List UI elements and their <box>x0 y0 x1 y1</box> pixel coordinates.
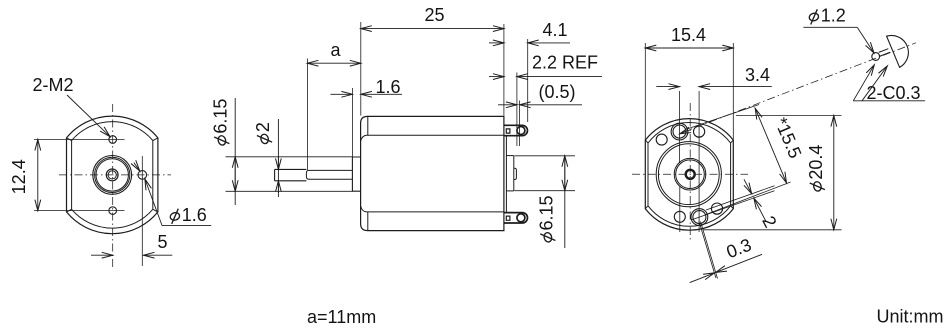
detail terminal half disc <box>887 36 909 68</box>
side view shaft top edge <box>275 168 307 170</box>
dim phi1.6 text <box>169 205 206 225</box>
dim 0.3 left segment <box>690 273 715 283</box>
svg-text:6.15: 6.15 <box>537 195 557 230</box>
svg-text:20.4: 20.4 <box>806 145 826 180</box>
dim 2-C0.3 leader 1 <box>853 65 874 101</box>
ext 0.3 left line <box>699 221 716 278</box>
dim 4.1 right arrow+tail <box>528 42 570 44</box>
dim phi1.2 leader <box>857 27 874 53</box>
left view M2 hole bottom <box>109 207 117 215</box>
side view shaft bottom edge <box>275 180 307 182</box>
rear terminal hole bottom inner <box>693 211 706 224</box>
terminal eyelet top <box>517 127 525 135</box>
dim 25 line <box>361 28 504 30</box>
svg-text:6.15: 6.15 <box>211 99 231 134</box>
dim 3.4 line right tail <box>699 86 772 88</box>
dim phi2 top arrow <box>277 157 279 169</box>
detail terminal thickness line 2 <box>880 52 890 56</box>
svg-text:2: 2 <box>253 122 273 132</box>
ext 2 upper line <box>706 186 775 210</box>
ext line body right face <box>503 24 505 116</box>
svg-text:5: 5 <box>158 232 168 252</box>
ext line 1.6 left <box>351 88 353 157</box>
rear hole top-left <box>656 134 667 145</box>
rear hole bottom-left <box>674 211 685 222</box>
ext line 4.1 right <box>527 39 529 122</box>
svg-text:25: 25 <box>425 5 445 25</box>
rear terminal hole top outer <box>671 123 688 140</box>
dim (0.5) right arrow+tail <box>520 104 582 106</box>
ext phi20.4 bottom <box>704 229 842 231</box>
detail chain line <box>681 43 917 133</box>
svg-text:1.2: 1.2 <box>821 6 846 26</box>
left view corner chamfer bottom-left <box>67 209 72 212</box>
left view top hole centerline / 12.4 ext <box>34 139 125 141</box>
ext phi20.4 top <box>736 115 842 117</box>
left view corner chamfer bottom-right <box>153 209 158 212</box>
dim 1.6 left arrow <box>330 93 352 95</box>
left view phi1.6 hole <box>138 171 147 180</box>
svg-text:2: 2 <box>758 213 780 231</box>
svg-text:1.6: 1.6 <box>376 77 401 97</box>
dim 15.4 line <box>645 47 733 49</box>
left view corner chamfer top-left <box>67 138 72 141</box>
ext *15.5 top <box>685 105 759 130</box>
ext 15.4 left <box>644 43 646 140</box>
ext 2 lower line <box>692 191 775 220</box>
detail terminal thickness line 1 <box>879 49 889 53</box>
side view flat corner edge top <box>367 116 369 135</box>
dim phi6.15R arrows <box>564 156 566 191</box>
ext line 0.5 right <box>519 101 521 147</box>
ext line a left <box>306 59 308 171</box>
rear hole top-right <box>694 126 705 137</box>
side view end cap rim <box>505 136 507 212</box>
side view flat edge line top <box>361 135 504 141</box>
rear line through right holes / 3.4 ext <box>698 91 700 232</box>
dim phi1.6 leader <box>145 179 162 226</box>
left view vertical centerline <box>112 104 114 268</box>
ext line body left face <box>360 22 362 116</box>
svg-text:2.2 REF: 2.2 REF <box>532 53 598 73</box>
left view shaft chamfer circle <box>108 171 116 179</box>
dim 0.3 right segment <box>716 254 762 272</box>
rear hole bottom-right <box>711 203 722 214</box>
left view bearing boss circle mid <box>95 157 130 192</box>
rear view chamfer top-right <box>731 140 734 143</box>
terminal tab top <box>504 125 527 135</box>
dim phi6.15L arrows <box>234 157 236 192</box>
side view end cap pip <box>514 168 517 179</box>
dim phi1.2 shelf <box>803 26 857 28</box>
dim phi20.4 text <box>806 145 826 192</box>
side view shaft flat section <box>306 170 352 179</box>
rear line through top terminal / 3.4 ext <box>679 91 681 163</box>
rear horizontal centerline <box>632 173 748 175</box>
dim 2-M2 leader <box>67 95 110 137</box>
left view horizontal centerline <box>59 174 171 176</box>
left view M2 hole top <box>109 136 117 144</box>
side view flat corner edge bottom <box>367 212 369 231</box>
rear view chamfer top-left <box>645 140 648 143</box>
rear view case outer outline <box>645 119 733 231</box>
svg-text:3.4: 3.4 <box>745 65 770 85</box>
dim a line <box>307 62 360 64</box>
dim 2.2REF right arrow+tail <box>517 76 602 78</box>
dim phi6.15R ext top <box>515 155 576 157</box>
svg-text:Unit:mm: Unit:mm <box>877 307 944 327</box>
svg-text:15.4: 15.4 <box>671 25 706 45</box>
dim phi1.6 upper arrow <box>134 163 140 171</box>
svg-text:4.1: 4.1 <box>543 20 568 40</box>
side view end cap boss face <box>513 156 515 191</box>
side view motor body outline <box>361 116 504 230</box>
dim phi2 text <box>253 122 273 144</box>
terminal notch top <box>506 129 510 133</box>
side view front bearing boss <box>352 157 360 191</box>
ext line 2.2REF right <box>516 73 518 147</box>
rear view chamfer bottom-left <box>645 206 648 209</box>
rear view shaft end ring <box>686 170 695 179</box>
rear view boss circle outer <box>674 158 706 190</box>
svg-text:a: a <box>331 40 342 60</box>
dim 2-C0.3 shelf <box>853 100 925 102</box>
rear view end cap circle outer <box>656 142 721 207</box>
dim 2 lower segment <box>754 198 766 221</box>
dim 5 line left tail <box>91 254 113 256</box>
terminal notch bottom <box>506 216 510 220</box>
svg-text:(0.5): (0.5) <box>539 82 576 102</box>
dim phi6.15L line <box>234 98 236 205</box>
dim 1.6 right arrow+tail <box>361 93 402 95</box>
rear view boss circle inner <box>676 160 705 189</box>
left view bearing boss circle inner <box>96 159 128 191</box>
dim phi2 line <box>277 119 279 197</box>
dim 2.2REF left arrow <box>489 76 504 78</box>
ext 15.4 right <box>732 43 734 140</box>
dim 2-C0.3 leader 2 <box>862 66 887 101</box>
terminal eyelet bottom <box>517 214 525 222</box>
ext 0.3 right line <box>701 222 718 279</box>
svg-text:*15.5: *15.5 <box>771 115 806 162</box>
dim phi6.15L ext top <box>226 156 353 158</box>
svg-text:2-M2: 2-M2 <box>33 75 74 95</box>
svg-text:a=11mm: a=11mm <box>307 307 376 327</box>
dim (0.5) left arrow <box>498 104 517 106</box>
rear view end cap circle inner <box>658 144 719 205</box>
dim 5 line right tail <box>144 254 173 256</box>
dim phi1.2 text <box>808 6 845 26</box>
svg-text:2-C0.3: 2-C0.3 <box>867 83 921 103</box>
dim phi2 bottom arrow <box>277 181 279 193</box>
svg-text:0.3: 0.3 <box>724 235 755 263</box>
rear terminal hole top inner <box>673 125 686 138</box>
side view shaft tip <box>274 169 276 180</box>
rear view chamfer bottom-right <box>731 206 734 209</box>
side view flat edge line bottom <box>361 206 504 212</box>
side view end cap boss bottom <box>506 190 513 192</box>
dim *15.5 line <box>755 108 786 183</box>
rear view case inner rim outline <box>648 123 731 227</box>
dim phi6.15R line <box>564 156 566 248</box>
svg-text:1.6: 1.6 <box>182 205 207 225</box>
ext *15.5 bottom <box>705 182 791 215</box>
left view bottom hole centerline / 12.4 ext <box>34 210 125 212</box>
left view corner chamfer top-right <box>153 138 158 141</box>
terminal tab bottom <box>504 213 527 223</box>
dim phi6.15R ext bottom <box>515 190 576 192</box>
dim phi6.15R text <box>537 195 557 242</box>
rear terminal hole bottom outer <box>691 209 708 226</box>
left view case inner rim outline <box>72 122 153 228</box>
side view end cap boss top <box>506 155 513 157</box>
dim phi6.15L text <box>211 99 231 146</box>
dim 2 upper segment <box>744 179 752 193</box>
dim 4.1 left arrow <box>489 42 504 44</box>
left view shaft circle <box>106 169 118 181</box>
svg-text:12.4: 12.4 <box>9 159 29 194</box>
detail eyelet circle phi1.2 <box>872 53 880 61</box>
left view bearing boss circle outer <box>93 156 132 195</box>
dim phi1.6 shelf <box>162 225 211 227</box>
dim phi20.4 line <box>833 116 835 230</box>
rear line through bottom-left hole <box>679 186 681 232</box>
rear vertical centerline <box>689 103 691 242</box>
dim phi6.15L ext bottom <box>226 190 353 192</box>
left view phi1.6 hole centerline / 5 ext <box>141 156 143 266</box>
left view motor case outer outline <box>67 116 158 234</box>
dim 3.4 line left tail <box>656 86 679 88</box>
dim 12.4 line <box>37 140 39 211</box>
detail chain line arrow <box>680 130 691 134</box>
